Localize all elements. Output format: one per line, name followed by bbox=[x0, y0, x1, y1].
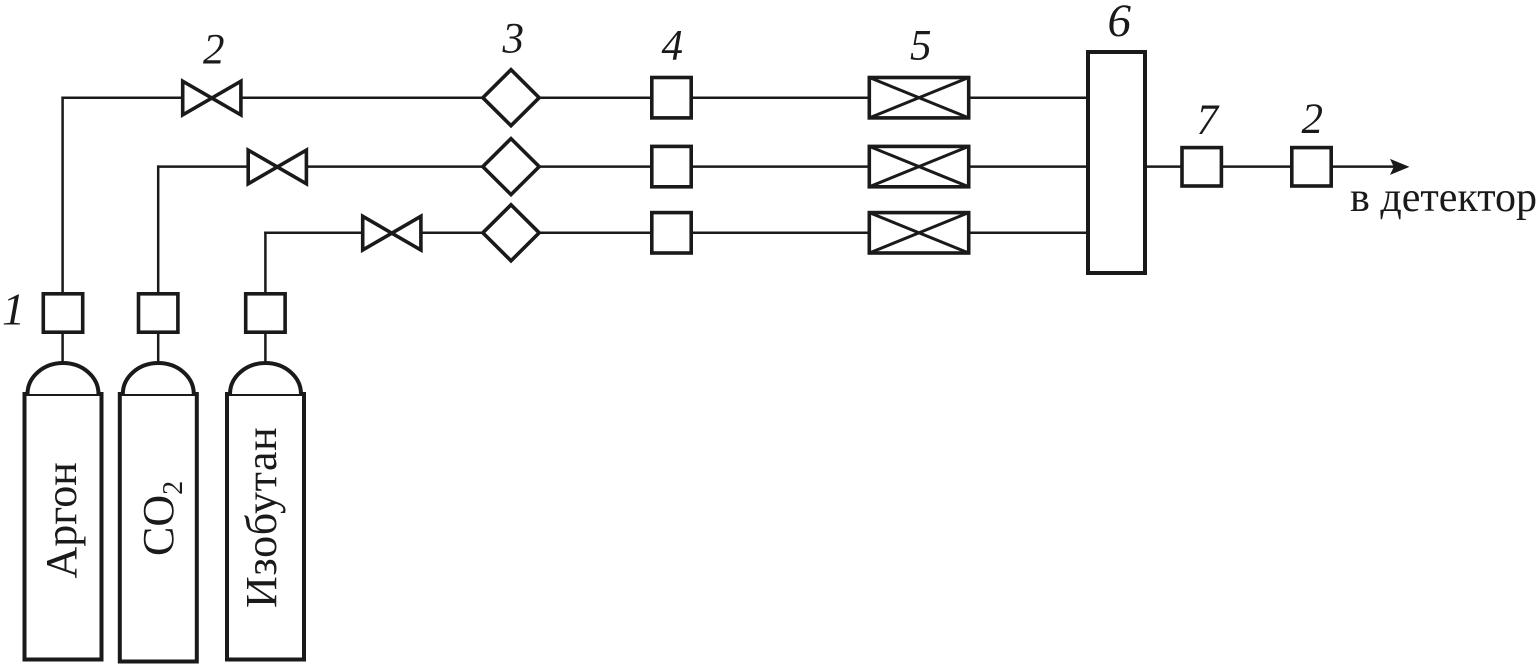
svg-text:Изобутан: Изобутан bbox=[237, 427, 286, 608]
cylinder CO2 body bbox=[120, 363, 197, 662]
svg-text:2: 2 bbox=[203, 27, 225, 74]
svg-text:в детектор: в детектор bbox=[1350, 175, 1537, 221]
flowmeter 5 row3 (crossed rectangle) bbox=[869, 213, 968, 253]
arrowhead to detector bbox=[1390, 159, 1410, 175]
wire stub regulator to cylinder Isobutane bbox=[264, 334, 267, 368]
svg-text:Аргон: Аргон bbox=[37, 462, 86, 578]
wire vertical drop from row1 to regulator 1 (argon) bbox=[61, 97, 64, 293]
regulator 1 on CO2 cylinder (square) bbox=[139, 294, 178, 332]
svg-text:1: 1 bbox=[2, 284, 25, 335]
valve 2 output (square) bbox=[1292, 148, 1331, 186]
mixer 6 (tall rectangle) bbox=[1088, 52, 1145, 273]
regulator 1 on Isobutane cylinder (square) bbox=[246, 294, 285, 332]
svg-text:7: 7 bbox=[1197, 97, 1220, 144]
device 7 (square) bbox=[1182, 148, 1221, 186]
filter 3 row1 (diamond) bbox=[483, 70, 539, 126]
regulator 1 on Argon cylinder (square) bbox=[43, 294, 82, 332]
filter 3 row2 (diamond) bbox=[483, 139, 539, 195]
wire mixer output to detector arrow bbox=[1147, 165, 1398, 168]
valve 2 row3 (bowtie) bbox=[363, 216, 421, 250]
filter 3 row3 (diamond) bbox=[483, 205, 539, 261]
wire row2 horizontal bbox=[157, 165, 1086, 168]
cylinder Isobutane body bbox=[227, 363, 304, 660]
valve 2 row2 (bowtie) bbox=[248, 150, 306, 184]
wire vertical drop from row2 to regulator 1 (CO2) bbox=[157, 165, 160, 292]
device 4 row3 (square) bbox=[652, 213, 691, 253]
wire stub regulator to cylinder Argon bbox=[61, 334, 64, 368]
wire stub regulator to cylinder CO2 bbox=[157, 334, 160, 368]
device 4 row1 (square) bbox=[652, 78, 691, 118]
wire row1 horizontal from corner to mixer bbox=[61, 96, 1086, 99]
svg-text:5: 5 bbox=[910, 22, 932, 69]
wire vertical drop from row3 to regulator 1 (isobutane) bbox=[264, 232, 267, 292]
flowmeter 5 row1 (crossed rectangle) bbox=[869, 78, 968, 118]
valve 2 row1 (bowtie) bbox=[183, 81, 241, 115]
svg-text:2: 2 bbox=[1302, 96, 1324, 143]
device 4 row2 (square) bbox=[652, 146, 691, 186]
wire row3 horizontal bbox=[264, 232, 1086, 235]
svg-text:3: 3 bbox=[502, 16, 525, 63]
cylinder Argon body bbox=[25, 363, 102, 660]
flowmeter 5 row2 (crossed rectangle) bbox=[869, 146, 968, 186]
svg-text:6: 6 bbox=[1108, 0, 1132, 47]
svg-text:4: 4 bbox=[662, 22, 684, 69]
